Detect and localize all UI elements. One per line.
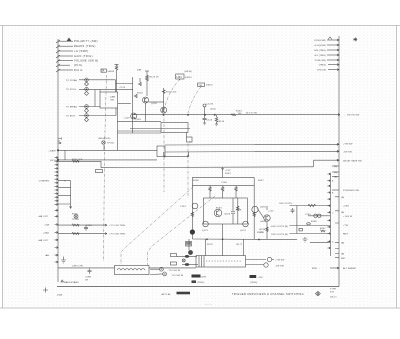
svg-text:+G (SWP): +G (SWP) bbox=[74, 50, 89, 53]
svg-text:(TRIG): (TRIG) bbox=[250, 282, 257, 284]
svg-text:R158: R158 bbox=[236, 210, 242, 212]
svg-text:C47R: C47R bbox=[200, 276, 206, 278]
svg-text:+AB OUT: +AB OUT bbox=[38, 215, 49, 218]
svg-text:C1R3: C1R3 bbox=[85, 277, 92, 279]
svg-text:POLARITY (SW): POLARITY (SW) bbox=[74, 40, 98, 43]
svg-text:TP165: TP165 bbox=[72, 219, 80, 221]
svg-text:Q234: Q234 bbox=[260, 206, 266, 208]
svg-text:+12V: +12V bbox=[225, 170, 231, 172]
svg-text:SYNC(SW): SYNC(SW) bbox=[314, 40, 326, 42]
svg-text:Q173: Q173 bbox=[202, 230, 208, 232]
svg-text:L1R3 17R: L1R3 17R bbox=[72, 265, 83, 267]
svg-text:MAIN BOARD: MAIN BOARD bbox=[64, 281, 79, 284]
svg-text:(B): (B) bbox=[341, 242, 344, 244]
svg-text:-TW SW: -TW SW bbox=[275, 266, 285, 268]
svg-text:C148: C148 bbox=[221, 182, 227, 184]
svg-text:TO CH1 IN: TO CH1 IN bbox=[169, 270, 181, 272]
svg-text:C165: C165 bbox=[305, 214, 311, 216]
svg-text:+AB OUT: +AB OUT bbox=[38, 239, 49, 242]
svg-text:H31: H31 bbox=[177, 75, 183, 79]
svg-text:TYPE: TYPE bbox=[330, 289, 337, 291]
svg-text:+TO CH1 TRIG: +TO CH1 TRIG bbox=[109, 225, 125, 227]
svg-text:GO (TRIG): GO (TRIG) bbox=[314, 55, 326, 57]
svg-text:SYNCHRO SW: SYNCHRO SW bbox=[343, 190, 360, 192]
svg-text:+12V: +12V bbox=[268, 210, 274, 212]
svg-text:R126: R126 bbox=[219, 121, 225, 123]
svg-text:R145: R145 bbox=[225, 173, 231, 175]
svg-text:R148: R148 bbox=[193, 180, 199, 182]
svg-text:C153: C153 bbox=[180, 206, 186, 208]
svg-text:R123 1K: R123 1K bbox=[150, 77, 160, 79]
svg-text:+GATE: +GATE bbox=[48, 149, 56, 152]
svg-text:54614: 54614 bbox=[206, 85, 213, 87]
svg-text:+TW: +TW bbox=[343, 225, 349, 227]
svg-text:(TW LB): (TW LB) bbox=[317, 70, 326, 72]
svg-text:+GA2: +GA2 bbox=[43, 231, 50, 234]
svg-text:+TW SW: +TW SW bbox=[343, 144, 353, 146]
svg-text:TO BOIT: TO BOIT bbox=[66, 116, 76, 118]
svg-text:AS71.AL: AS71.AL bbox=[162, 293, 172, 296]
svg-text:VOM (SW): VOM (SW) bbox=[315, 60, 327, 62]
svg-text:Q164: Q164 bbox=[224, 214, 230, 216]
svg-text:1R: 1R bbox=[85, 280, 88, 282]
svg-text:54B: 54B bbox=[137, 70, 142, 72]
svg-text:COMPEN: COMPEN bbox=[39, 181, 50, 183]
svg-text:Q143: Q143 bbox=[135, 119, 141, 121]
svg-text:+G SQ(SW): +G SQ(SW) bbox=[313, 45, 326, 47]
svg-text:+TO CH2 TRIG: +TO CH2 TRIG bbox=[109, 234, 125, 236]
svg-text:DELAY GATE SW: DELAY GATE SW bbox=[343, 159, 363, 162]
svg-text:54614: 54614 bbox=[185, 77, 192, 79]
svg-text:RST: RST bbox=[341, 258, 346, 260]
svg-text:DLY’D TW: DLY’D TW bbox=[246, 113, 258, 115]
svg-text:TO PO/AG: TO PO/AG bbox=[66, 79, 78, 82]
svg-text:TO BR/AG: TO BR/AG bbox=[66, 106, 77, 109]
svg-text:LED VOLTS: LED VOLTS bbox=[279, 203, 292, 205]
svg-text:547: 547 bbox=[330, 291, 335, 293]
svg-text:(B): (B) bbox=[341, 197, 344, 199]
svg-text:(B): (B) bbox=[334, 177, 337, 179]
svg-text:+ - + -: + - + - bbox=[205, 304, 212, 306]
svg-text:(PLS): (PLS) bbox=[74, 64, 82, 67]
svg-text:QS-11: QS-11 bbox=[330, 297, 337, 299]
svg-text:(B): (B) bbox=[341, 254, 344, 256]
svg-text:REG: REG bbox=[343, 234, 348, 236]
svg-text:R159: R159 bbox=[257, 232, 263, 234]
svg-text:← TW TW SW: ← TW TW SW bbox=[344, 115, 360, 117]
svg-text:R236: R236 bbox=[260, 229, 266, 231]
svg-text:GAIN (TRIG): GAIN (TRIG) bbox=[74, 55, 93, 58]
svg-text:(+12V): (+12V) bbox=[206, 104, 213, 106]
svg-text:TO CH2 IN: TO CH2 IN bbox=[172, 275, 184, 277]
svg-text:134: 134 bbox=[238, 113, 243, 115]
svg-text:C125: C125 bbox=[120, 87, 126, 89]
svg-text:ALT SWEEP: ALT SWEEP bbox=[343, 267, 357, 270]
svg-text:+ SIG IN: + SIG IN bbox=[343, 216, 353, 218]
svg-text:READS (TRIG): READS (TRIG) bbox=[74, 45, 96, 48]
svg-text:D/A G: D/A G bbox=[74, 69, 83, 72]
svg-text:(TRIG): (TRIG) bbox=[197, 282, 204, 284]
svg-text:R126: R126 bbox=[137, 93, 143, 95]
svg-text:(S): (S) bbox=[334, 166, 337, 168]
svg-text:TRIGGER AMPLIFIERS & CHANNEL S: TRIGGER AMPLIFIERS & CHANNEL SWITCHING bbox=[232, 293, 304, 296]
svg-text:LED VOLTS (B): LED VOLTS (B) bbox=[271, 234, 288, 236]
svg-text:(LED): (LED) bbox=[260, 221, 266, 223]
svg-text:R124 100: R124 100 bbox=[166, 92, 177, 94]
svg-text:(S): (S) bbox=[334, 172, 337, 174]
svg-text:(DLY): (DLY) bbox=[50, 160, 56, 162]
svg-text:0448: 0448 bbox=[57, 295, 63, 297]
svg-text:Q133: Q133 bbox=[151, 103, 157, 105]
svg-text:(134): (134) bbox=[210, 109, 216, 111]
svg-text:R177: R177 bbox=[237, 244, 243, 246]
svg-text:+LED: +LED bbox=[343, 206, 349, 208]
svg-text:CAM: CAM bbox=[110, 95, 115, 98]
svg-text:-LED VOLTS (B): -LED VOLTS (B) bbox=[270, 226, 288, 228]
svg-text:MTR →: MTR → bbox=[312, 268, 320, 270]
svg-text:TO POIG: TO POIG bbox=[66, 89, 76, 91]
svg-text:TP155: TP155 bbox=[107, 143, 115, 145]
svg-text:R167: R167 bbox=[320, 228, 326, 230]
svg-text:(DELAYED): (DELAYED) bbox=[98, 137, 111, 140]
svg-text:(H434): (H434) bbox=[185, 71, 192, 73]
svg-text:54B14: 54B14 bbox=[108, 71, 116, 73]
svg-text:R161 10K: R161 10K bbox=[72, 159, 83, 161]
svg-text:(B): (B) bbox=[341, 212, 344, 214]
svg-text:C124: C124 bbox=[207, 120, 213, 122]
svg-text:(TRIG): (TRIG) bbox=[319, 65, 326, 67]
svg-text:VOLUME (SW B): VOLUME (SW B) bbox=[74, 60, 99, 63]
svg-text:-TW SW: -TW SW bbox=[343, 152, 353, 154]
svg-text:R166: R166 bbox=[311, 221, 317, 223]
svg-text:R163: R163 bbox=[216, 208, 222, 210]
svg-text:C129: C129 bbox=[124, 118, 130, 120]
svg-text:R165: R165 bbox=[72, 214, 78, 216]
svg-text:R176: R176 bbox=[207, 244, 213, 246]
svg-text:C163: C163 bbox=[86, 225, 92, 227]
svg-text:S/N (TRIG): S/N (TRIG) bbox=[314, 50, 326, 52]
svg-text:R147: R147 bbox=[258, 180, 264, 182]
svg-text:+GA: +GA bbox=[44, 224, 49, 227]
svg-text:+TW: +TW bbox=[258, 277, 264, 279]
svg-text:+AB: +AB bbox=[45, 254, 50, 257]
svg-text:+TW SW: +TW SW bbox=[275, 260, 285, 262]
svg-text:Q174: Q174 bbox=[240, 230, 246, 232]
